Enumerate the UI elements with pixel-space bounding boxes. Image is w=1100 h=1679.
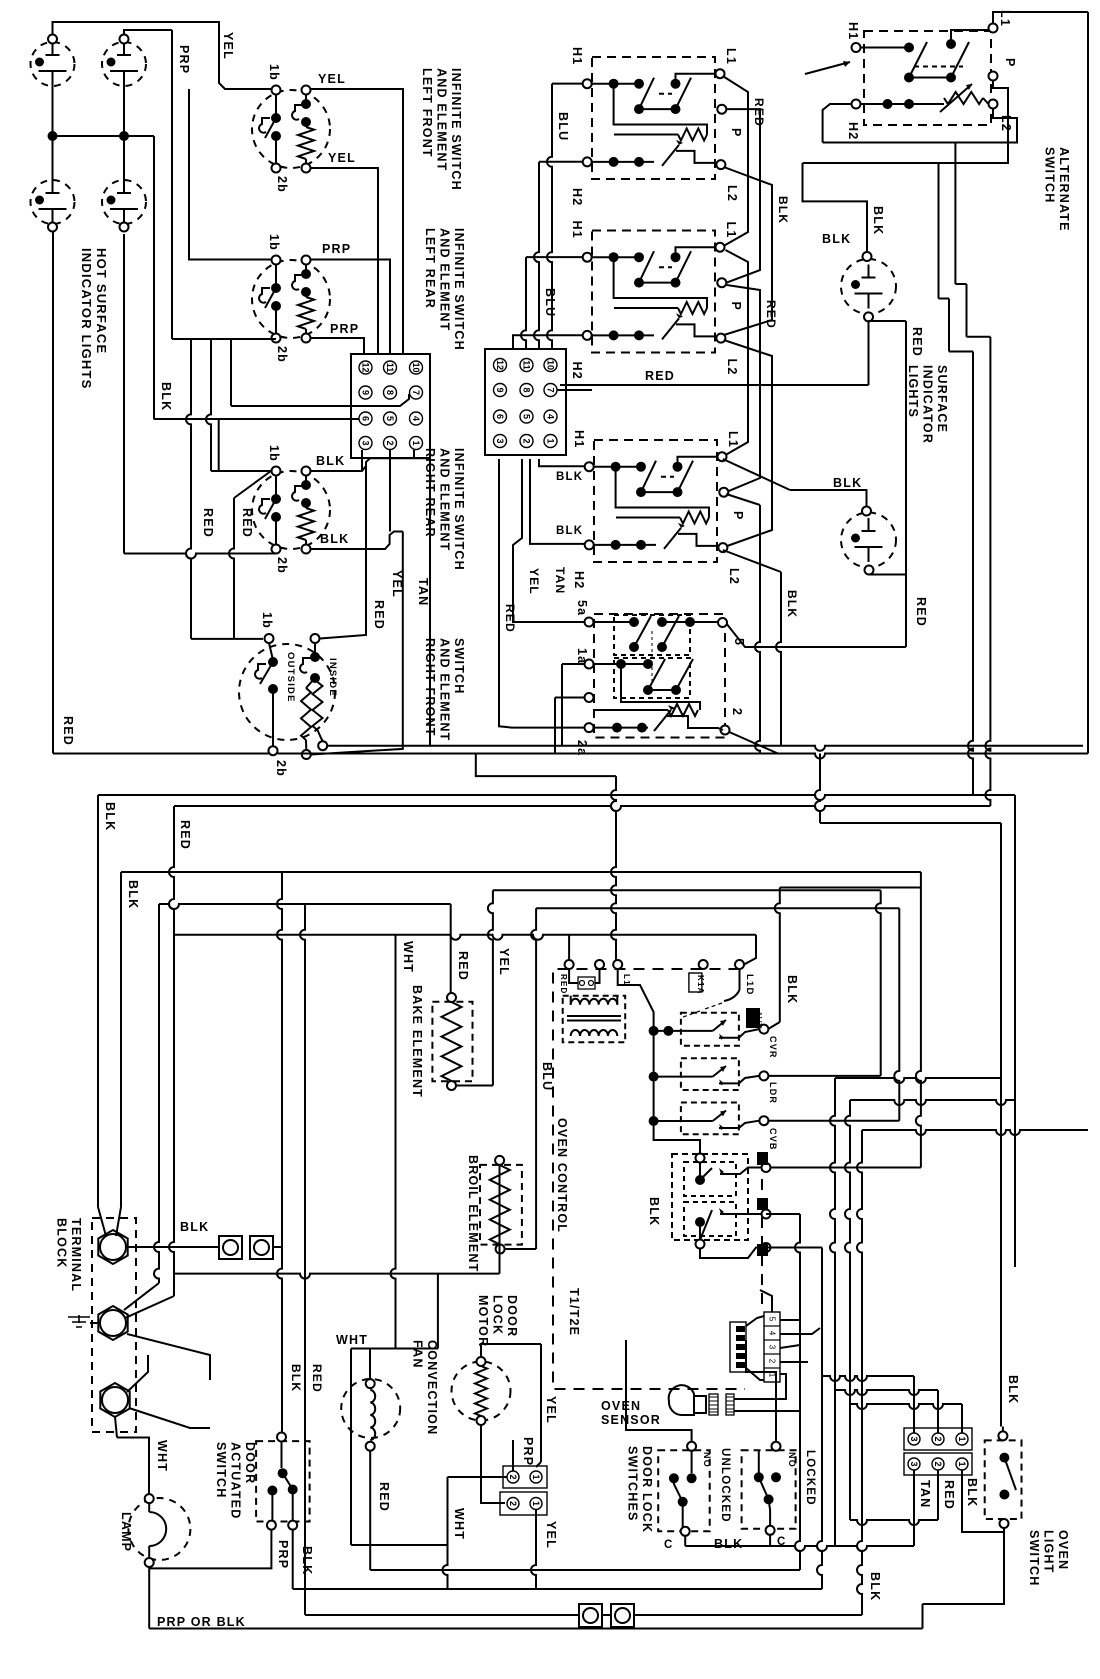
- oven relay contact bank 1: [681, 1013, 739, 1046]
- pin 9 connector right: [494, 384, 507, 397]
- wires 3pin connector feeders: [913, 1376, 915, 1433]
- svg-text:BLK: BLK: [300, 1546, 314, 1575]
- svg-text:5: 5: [768, 1317, 777, 1322]
- infinite switch right front: [239, 644, 335, 740]
- junction node lights right: [119, 131, 129, 141]
- wire BLU box1 H1 to connector: [552, 83, 583, 85]
- fuse oven control: [578, 977, 595, 989]
- hot surface indicator light DS3: [31, 180, 75, 224]
- lamp filament: [149, 1503, 166, 1558]
- terminal block box: [92, 1218, 136, 1432]
- contacts top row right rear: [592, 83, 639, 85]
- svg-text:3: 3: [909, 1461, 919, 1466]
- svg-text:BLU: BLU: [543, 288, 557, 317]
- svg-text:RIGHT FRONT: RIGHT FRONT: [423, 638, 437, 737]
- svg-text:BROIL ELEMENT: BROIL ELEMENT: [466, 1155, 480, 1272]
- wire BLK lights common: [53, 135, 155, 137]
- wire L1 chain box2 to box3: [723, 250, 748, 457]
- switch contacts left front: [275, 95, 277, 119]
- svg-text:OUTSIDE: OUTSIDE: [285, 652, 296, 703]
- wire YEL LF element top to bus: [311, 89, 404, 354]
- terminal L2 alternate: [989, 100, 998, 109]
- contacts door actuated switch: [281, 1442, 283, 1469]
- wire bus x835: [830, 1078, 835, 1546]
- svg-text:BLK: BLK: [785, 975, 799, 1004]
- connector block right: [485, 349, 566, 455]
- wire K1A feed: [618, 969, 654, 1031]
- svg-text:PRP: PRP: [521, 1437, 535, 1466]
- label AUX: [746, 1008, 760, 1028]
- svg-text:BLU: BLU: [556, 112, 570, 141]
- wire BLK lamp DS4 to RR 2b: [123, 234, 125, 554]
- terminal unlocked top: [687, 1442, 696, 1451]
- svg-text:1b: 1b: [267, 445, 281, 462]
- wire BLK RR element bottom to YEL bus: [311, 532, 403, 550]
- svg-text:RED: RED: [764, 300, 778, 329]
- svg-text:SWITCHES: SWITCHES: [626, 1446, 640, 1522]
- small square plug 2: [250, 1236, 273, 1259]
- svg-text:1: 1: [546, 438, 556, 443]
- wire RED 2b bus y755: [278, 754, 1089, 759]
- wire bus y908: [536, 907, 899, 909]
- infinite switch left rear: [252, 260, 330, 338]
- svg-text:AUX: AUX: [754, 1011, 764, 1029]
- wire H2c to bus: [554, 698, 556, 754]
- svg-text:2: 2: [933, 1461, 943, 1466]
- pin 10 connector right: [544, 359, 557, 372]
- door lock switch locked box: [742, 1450, 796, 1529]
- terminal L2 right front: [716, 334, 725, 343]
- wire BLK squares to door actuated switch: [273, 1246, 282, 1248]
- svg-text:MOTOR: MOTOR: [476, 1295, 490, 1347]
- svg-text:1b: 1b: [267, 64, 281, 81]
- terminal H2 right rear: [583, 157, 592, 166]
- wire x1015 right bus: [1014, 795, 1016, 1267]
- pin 9 connector left: [359, 386, 372, 399]
- terminal 2b right rear: [272, 545, 281, 554]
- svg-text:TAN: TAN: [416, 578, 430, 606]
- wire L2 chain box3 down: [723, 550, 781, 572]
- terminal L1 alternate: [989, 24, 998, 33]
- svg-text:RED: RED: [503, 604, 517, 633]
- svg-text:5: 5: [385, 416, 395, 421]
- svg-text:P: P: [729, 128, 743, 138]
- relay bank 4 DLB: [672, 1154, 748, 1240]
- svg-text:BLK: BLK: [180, 1220, 209, 1234]
- wire oven light bottom: [923, 1528, 1005, 1604]
- svg-text:2: 2: [508, 1501, 518, 1506]
- broil element: [480, 1165, 522, 1245]
- surface indicator light 1: [841, 259, 896, 314]
- wire BLK light2 top from L1: [790, 490, 867, 507]
- svg-text:1b: 1b: [260, 612, 274, 629]
- svg-text:WHT: WHT: [401, 941, 415, 973]
- svg-text:H2: H2: [846, 122, 860, 140]
- wire BLK bus x98 down to terminal block: [97, 795, 99, 1207]
- wire unlocked top feeder: [626, 1340, 692, 1442]
- terminal 2b left front: [272, 164, 281, 173]
- terminal door actuated top: [277, 1433, 286, 1442]
- svg-text:RED: RED: [377, 1482, 391, 1512]
- terminal T2: [98, 1306, 127, 1340]
- thermostat right rear: [592, 161, 654, 163]
- svg-text:BLK: BLK: [868, 1572, 882, 1601]
- contacts top row left rear: [594, 466, 641, 468]
- svg-text:YEL: YEL: [221, 32, 235, 60]
- svg-text:LAMP: LAMP: [119, 1512, 133, 1552]
- svg-text:H1: H1: [572, 430, 586, 448]
- svg-text:RED: RED: [942, 1480, 956, 1510]
- svg-text:PRP: PRP: [177, 45, 191, 74]
- wire YEL LF element bottom: [311, 168, 379, 354]
- svg-text:L2: L2: [725, 359, 739, 376]
- wire bus x920 to L1B: [916, 872, 921, 1168]
- terminal element bottom left front: [302, 164, 311, 173]
- terminal H2 left rear: [585, 540, 594, 549]
- contacts top row right front: [592, 256, 639, 258]
- connector block left: [351, 354, 430, 458]
- svg-text:SWITCH: SWITCH: [452, 638, 466, 695]
- wire BLK RR element top to TAN bus: [311, 458, 431, 471]
- wire DLB relay feeds: [654, 1121, 700, 1154]
- wire RED lamp DS3 to RF 2b: [52, 232, 54, 754]
- terminal motor bottom: [477, 1416, 486, 1425]
- wire L2/H2 stepped bus A: [823, 104, 852, 143]
- pin 12 connector left: [359, 361, 372, 374]
- svg-text:YEL: YEL: [328, 151, 356, 165]
- oven sensor bulb: [669, 1385, 694, 1415]
- svg-text:OVEN: OVEN: [601, 1399, 641, 1413]
- pin 5 connector right: [520, 410, 533, 423]
- wire P chain box3 down: [726, 494, 760, 505]
- contacts oven light switch: [999, 1453, 1009, 1463]
- pin 1 connector right: [544, 435, 557, 448]
- svg-text:5a: 5a: [575, 600, 589, 616]
- pin 3 connector left: [359, 437, 372, 450]
- svg-text:11: 11: [522, 360, 532, 370]
- svg-text:INDICATOR: INDICATOR: [921, 365, 935, 444]
- wire BLK bus down: [153, 136, 155, 419]
- wire 1b bus LF to LR: [189, 89, 271, 260]
- wire BLU box1 H2 to connector: [539, 161, 583, 163]
- wire P chain box2 to box3: [726, 285, 760, 492]
- oven relay contact bank 3: [681, 1103, 739, 1135]
- oven control dashed right edge: [761, 1160, 763, 1312]
- ground symbol: [68, 1315, 90, 1327]
- contacts dual switch upper: [614, 615, 690, 655]
- door lock switch unlocked box: [658, 1450, 710, 1531]
- connector 3pin lower: [904, 1453, 972, 1475]
- wire alternate P to bus: [939, 81, 1009, 164]
- svg-text:YEL: YEL: [390, 570, 404, 598]
- svg-text:YEL: YEL: [544, 1521, 558, 1549]
- wire RED light2 bottom stub: [869, 574, 906, 576]
- wire P chain box1 to box2: [726, 109, 760, 283]
- wire WHT vertical: [443, 1477, 448, 1589]
- pin 10 connector left: [410, 361, 423, 374]
- wire RED light1 bottom down: [869, 320, 907, 322]
- svg-text:BLK: BLK: [785, 590, 799, 618]
- svg-text:DOOR: DOOR: [505, 1295, 519, 1337]
- terminal locked bottom: [766, 1526, 775, 1535]
- infinite switch right rear: [252, 471, 330, 549]
- terminal light1 top: [863, 252, 872, 261]
- door actuated switch box: [256, 1441, 310, 1521]
- svg-text:INFINITE SWITCH: INFINITE SWITCH: [452, 228, 466, 351]
- svg-text:8: 8: [522, 387, 532, 392]
- svg-text:8: 8: [385, 390, 395, 395]
- resistor inside element: [315, 678, 318, 682]
- svg-text:9: 9: [495, 387, 505, 392]
- pin 8 connector right: [520, 384, 533, 397]
- wire oven light top: [1002, 1427, 1004, 1432]
- small square plug bottom 1: [579, 1604, 602, 1627]
- wire bus x822: [817, 1248, 822, 1590]
- svg-text:LDR: LDR: [768, 1082, 778, 1104]
- svg-text:LOCKED: LOCKED: [804, 1450, 816, 1506]
- wire motor bottom WHT: [481, 1425, 505, 1503]
- hot surface indicator light DS1: [31, 42, 75, 86]
- terminal P right rear: [717, 105, 726, 114]
- svg-text:RED: RED: [456, 951, 470, 981]
- svg-text:4: 4: [546, 414, 556, 419]
- heater contacts left front: [305, 95, 307, 105]
- svg-text:BLU: BLU: [540, 1062, 554, 1091]
- svg-text:L1: L1: [724, 48, 738, 65]
- terminal block fan wires: [98, 1207, 106, 1236]
- svg-text:BLK: BLK: [822, 232, 851, 246]
- connector strip 54321: [764, 1312, 780, 1382]
- svg-text:INFINITE SWITCH: INFINITE SWITCH: [452, 448, 466, 571]
- wire bus x899 to CVB: [894, 908, 899, 1120]
- thermostat right front: [592, 334, 654, 336]
- wire RED to bake: [450, 935, 452, 993]
- svg-text:CVR: CVR: [768, 1036, 778, 1059]
- terminal T3: [100, 1383, 129, 1417]
- terminal fan bottom: [366, 1442, 375, 1451]
- wire RED bus y806: [174, 806, 990, 811]
- svg-text:1: 1: [531, 1501, 541, 1506]
- svg-text:ALTERNATE: ALTERNATE: [1057, 147, 1071, 232]
- small square plug bottom 2: [611, 1604, 634, 1627]
- svg-text:NO: NO: [702, 1452, 712, 1468]
- thermostat dual: [594, 727, 649, 729]
- terminal 5 dual: [718, 618, 727, 627]
- svg-text:1a: 1a: [575, 648, 589, 664]
- svg-text:YEL: YEL: [544, 1396, 558, 1424]
- wire RED horizontal to light1: [560, 384, 869, 386]
- svg-text:INFINITE SWITCH: INFINITE SWITCH: [449, 68, 463, 191]
- svg-text:2b: 2b: [275, 557, 289, 574]
- svg-text:BLK: BLK: [714, 1537, 743, 1551]
- svg-text:4: 4: [768, 1331, 777, 1336]
- svg-text:12: 12: [495, 360, 505, 370]
- comb contacts 54321: [730, 1322, 746, 1372]
- pin 7 connector right: [544, 384, 557, 397]
- svg-text:PRP: PRP: [276, 1540, 290, 1569]
- svg-text:AND ELEMENT: AND ELEMENT: [438, 448, 452, 551]
- wire L1 top edge to right edge down: [993, 12, 1088, 24]
- wire P stepped bus B: [803, 162, 939, 164]
- wire BLK bus y795: [98, 795, 1015, 800]
- wire 54321 strip up: [760, 1290, 772, 1312]
- wire BLK light1 top riser: [803, 163, 868, 252]
- door lock motor: [452, 1362, 511, 1421]
- svg-text:PRP OR BLK: PRP OR BLK: [157, 1615, 246, 1629]
- svg-text:T1/T2E: T1/T2E: [567, 1288, 581, 1336]
- oven control dashed box: [553, 969, 745, 1389]
- terminal T1: [98, 1230, 127, 1264]
- svg-text:BLK: BLK: [871, 206, 885, 235]
- wire bus x850: [845, 1100, 850, 1520]
- surface unit switch right front: [592, 231, 715, 353]
- wire 2 terminal to bus: [729, 732, 778, 754]
- svg-text:L1: L1: [724, 222, 738, 239]
- resistor element left front: [305, 122, 307, 127]
- wire bus x211: [206, 339, 211, 471]
- oven sensor plug: [709, 1394, 718, 1415]
- terminal unlocked bottom: [681, 1527, 690, 1536]
- wire oven sensor to strip: [734, 1374, 786, 1399]
- terminal LDR: [759, 1071, 768, 1080]
- svg-text:10: 10: [546, 360, 556, 370]
- terminal locked top: [772, 1442, 781, 1451]
- oven lamp: [128, 1498, 190, 1560]
- svg-text:BLK: BLK: [159, 382, 173, 411]
- wire PRP light DS2 down: [124, 30, 172, 35]
- svg-text:2: 2: [933, 1436, 943, 1441]
- hot surface indicator light DS2: [102, 42, 146, 86]
- svg-text:L1: L1: [622, 974, 631, 986]
- oven relay contact bank 2: [681, 1058, 739, 1090]
- svg-text:3: 3: [495, 438, 505, 443]
- wire WHT left down: [391, 935, 396, 1349]
- terminal P alternate: [989, 72, 998, 81]
- wire PRP LR element top: [311, 260, 391, 355]
- terminal bottom light DS3: [48, 223, 57, 232]
- pilot resistor right front: [614, 257, 707, 308]
- svg-text:1: 1: [531, 1474, 541, 1479]
- svg-text:RED: RED: [372, 600, 386, 630]
- pin 4 connector left: [410, 412, 423, 425]
- wire RED RF inner element top: [320, 462, 366, 639]
- svg-text:P: P: [729, 302, 743, 312]
- svg-text:TAN: TAN: [553, 567, 567, 594]
- wire BLK riser to CVR: [780, 887, 921, 889]
- pin 6 connector left: [359, 412, 372, 425]
- pin 5 connector left: [384, 412, 397, 425]
- alternate switch box: [864, 31, 991, 125]
- svg-text:SENSOR: SENSOR: [601, 1413, 661, 1427]
- wire BLK bus y872: [121, 871, 921, 873]
- wire PRP door switch to lamp: [149, 1530, 271, 1569]
- terminal L1B: [762, 1163, 771, 1172]
- svg-text:K1A: K1A: [696, 975, 705, 995]
- terminal 2b left rear: [272, 334, 281, 343]
- svg-text:RED: RED: [559, 974, 568, 995]
- svg-text:LEFT FRONT: LEFT FRONT: [420, 68, 434, 158]
- svg-text:WHT: WHT: [336, 1333, 368, 1347]
- terminal element top left front: [302, 86, 311, 95]
- annotation arrow to alternate switch: [805, 62, 850, 74]
- wire oven bus vertical left: [653, 1031, 655, 1121]
- svg-text:RED: RED: [310, 1364, 324, 1393]
- wire BLU broil bottom up: [506, 1248, 536, 1250]
- terminal oven light top: [998, 1431, 1007, 1440]
- wire lamp bottom down: [148, 1567, 150, 1629]
- svg-text:LOCK: LOCK: [491, 1295, 505, 1335]
- svg-text:RIGHT REAR: RIGHT REAR: [423, 448, 437, 538]
- wire L1 chain box3 to lamp2: [723, 459, 790, 490]
- svg-text:AND ELEMENT: AND ELEMENT: [438, 228, 452, 331]
- terminal 5a: [585, 618, 594, 627]
- terminal fan top: [366, 1379, 375, 1388]
- svg-text:BLK: BLK: [103, 802, 117, 831]
- wire BLK bus x820 to oven light: [815, 754, 820, 824]
- svg-text:RED: RED: [645, 369, 675, 383]
- pin 4 connector right: [544, 410, 557, 423]
- terminal H2 alternate: [852, 100, 861, 109]
- svg-text:WHT: WHT: [155, 1440, 169, 1472]
- pin 3 connector right: [494, 435, 507, 448]
- svg-text:6: 6: [361, 416, 371, 421]
- terminal light2 top: [862, 507, 871, 516]
- svg-text:BLK: BLK: [316, 454, 345, 468]
- switch contacts right front: [269, 643, 273, 660]
- terminal oven light bottom: [1000, 1519, 1009, 1528]
- svg-text:RED: RED: [914, 597, 928, 627]
- svg-text:BLK: BLK: [1006, 1375, 1020, 1404]
- wire x1001 right bus: [1000, 823, 1002, 1427]
- wire into left connector pin7: [230, 339, 232, 406]
- wire TAN to 1a: [430, 745, 562, 747]
- svg-text:BLK: BLK: [556, 471, 583, 483]
- pin 2 connector left: [384, 437, 397, 450]
- terminal element bottom right rear: [302, 545, 311, 554]
- wires 54321 strip right: [780, 1319, 800, 1321]
- wire pin7 right connector to H2: [557, 389, 592, 391]
- terminal BA: [762, 1243, 771, 1252]
- svg-text:2b: 2b: [275, 346, 289, 363]
- svg-text:DOOR LOCK: DOOR LOCK: [640, 1446, 654, 1533]
- terminal L1 left rear: [718, 452, 727, 461]
- switch contacts right rear: [275, 476, 277, 500]
- svg-text:P: P: [731, 511, 745, 521]
- wire RED fan bottom: [369, 1451, 371, 1570]
- wire light DS2 to DS4: [123, 86, 125, 180]
- svg-text:LIGHTS: LIGHTS: [906, 365, 920, 418]
- pin 6 connector right: [494, 410, 507, 423]
- wire box2 H1 to connector: [526, 256, 583, 258]
- convection fan: [341, 1379, 400, 1438]
- terminal 1a: [585, 660, 594, 669]
- wire motor top: [481, 1344, 541, 1357]
- svg-text:RED: RED: [910, 327, 924, 357]
- terminal 1b left rear: [272, 256, 281, 265]
- svg-text:7: 7: [411, 390, 421, 395]
- svg-text:2: 2: [730, 708, 744, 716]
- terminal element top left rear: [302, 256, 311, 265]
- svg-text:SWITCH: SWITCH: [1043, 147, 1057, 204]
- svg-text:BLK: BLK: [776, 196, 790, 224]
- svg-text:2: 2: [508, 1474, 518, 1479]
- terminal H2c: [585, 723, 594, 732]
- terminal element inner top right front: [311, 634, 320, 643]
- junction node lights left: [48, 131, 58, 141]
- svg-text:CONVECTION: CONVECTION: [425, 1340, 439, 1435]
- wire RED bus x173: [169, 806, 174, 1296]
- wire 3pin lower outputs: [937, 1470, 939, 1520]
